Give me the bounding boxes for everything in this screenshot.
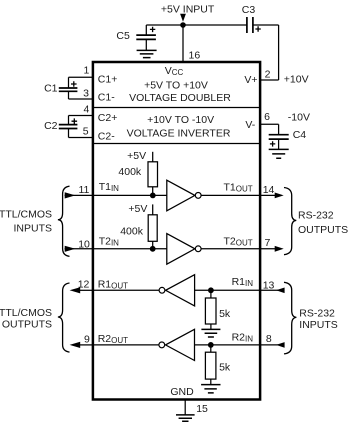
svg-text:10: 10 <box>78 238 90 250</box>
svg-text:16: 16 <box>189 50 201 62</box>
svg-text:4: 4 <box>84 103 90 115</box>
svg-text:+5V: +5V <box>127 150 146 162</box>
svg-text:8: 8 <box>266 333 272 345</box>
svg-text:INPUTS: INPUTS <box>299 319 338 331</box>
svg-text:7: 7 <box>265 237 271 249</box>
svg-text:GND: GND <box>170 386 194 398</box>
svg-text:TTL/CMOS: TTL/CMOS <box>0 307 52 319</box>
svg-text:INPUTS: INPUTS <box>13 223 52 235</box>
svg-text:-10V: -10V <box>288 111 310 123</box>
svg-text:OUTPUTS: OUTPUTS <box>298 224 348 236</box>
svg-text:C1: C1 <box>44 83 58 95</box>
svg-text:C5: C5 <box>116 30 130 42</box>
svg-text:+5V TO +10V: +5V TO +10V <box>144 79 208 91</box>
svg-text:13: 13 <box>263 280 275 292</box>
svg-text:RS-232: RS-232 <box>299 307 335 319</box>
svg-text:C1+: C1+ <box>98 74 118 86</box>
svg-text:VOLTAGE DOUBLER: VOLTAGE DOUBLER <box>129 92 231 104</box>
svg-text:14: 14 <box>263 184 275 196</box>
svg-text:12: 12 <box>78 278 90 290</box>
svg-text:C2+: C2+ <box>98 112 118 124</box>
svg-text:5k: 5k <box>219 362 231 374</box>
svg-text:9: 9 <box>84 334 90 346</box>
svg-text:400k: 400k <box>118 166 142 178</box>
svg-text:3: 3 <box>83 87 89 99</box>
svg-text:TTL/CMOS: TTL/CMOS <box>0 209 52 221</box>
svg-text:+5V: +5V <box>128 203 147 215</box>
svg-text:C2-: C2- <box>98 131 115 143</box>
svg-text:C1-: C1- <box>98 92 115 104</box>
svg-text:5: 5 <box>83 126 89 138</box>
svg-text:C3: C3 <box>242 4 256 16</box>
svg-text:400k: 400k <box>120 225 144 237</box>
svg-text:+10V TO -10V: +10V TO -10V <box>147 114 214 126</box>
svg-text:5k: 5k <box>219 308 231 320</box>
svg-text:15: 15 <box>196 403 208 415</box>
svg-text:RS-232: RS-232 <box>298 209 334 221</box>
svg-text:+10V: +10V <box>284 74 309 86</box>
svg-text:2: 2 <box>265 69 271 81</box>
svg-text:OUTPUTS: OUTPUTS <box>2 319 52 331</box>
svg-text:V+: V+ <box>244 74 257 86</box>
svg-text:VOLTAGE INVERTER: VOLTAGE INVERTER <box>127 128 231 140</box>
svg-text:C4: C4 <box>293 129 307 141</box>
svg-text:11: 11 <box>78 184 89 196</box>
svg-text:C2: C2 <box>44 120 58 132</box>
svg-text:+5V INPUT: +5V INPUT <box>161 4 215 16</box>
svg-text:6: 6 <box>264 111 270 123</box>
svg-text:1: 1 <box>84 65 90 77</box>
svg-text:V-: V- <box>245 119 255 131</box>
